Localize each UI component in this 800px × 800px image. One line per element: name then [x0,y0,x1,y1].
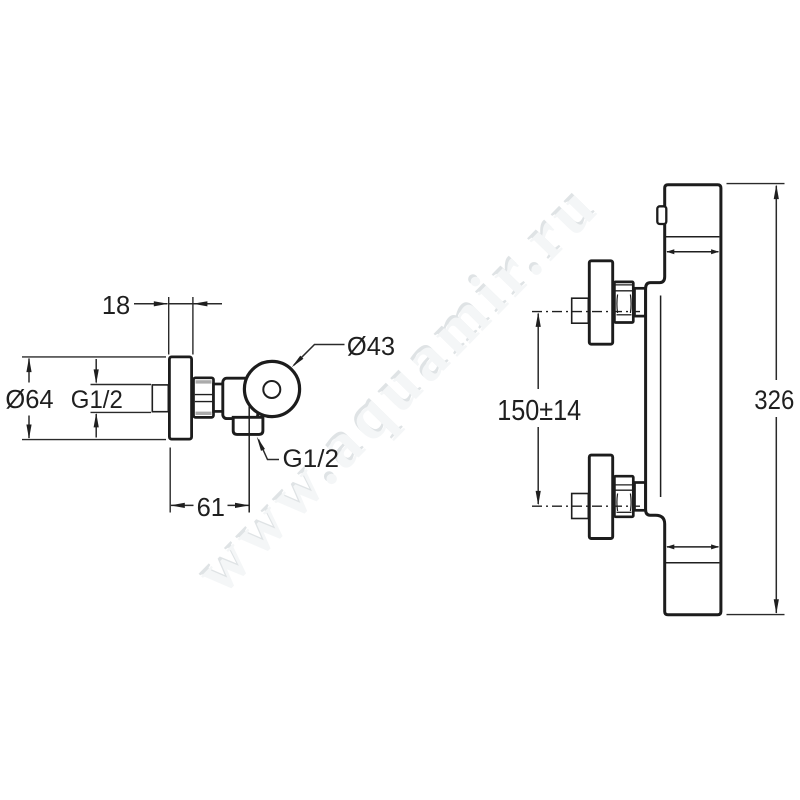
valve body (left view) [223,378,258,418]
node: lower centerline (dash-dot) [532,505,640,507]
wire: dim-18 extension line left [168,297,170,355]
bottom cap seam thin line [666,562,719,564]
node: upper centerline (dash-dot) [532,311,640,313]
watermark www.aquamir.ru [179,166,613,607]
lower nut inner line 1 [616,484,633,486]
upper escutcheon (right view) [589,261,612,344]
svg-text:150±14: 150±14 [497,395,581,427]
dim 150+-14 dimension line with arrows [536,312,541,505]
nut hex line lower [195,401,213,403]
top cap line with end arrows [666,249,719,254]
svg-text:G1/2: G1/2 [283,445,340,473]
upper nut inner line 2 [616,290,633,292]
wire: dim-326 extension line bottom [727,614,785,616]
lower eccentric adapter [635,483,646,511]
svg-text:G1/2: G1/2 [71,386,123,414]
nut shading band top [196,380,212,383]
lower nut barrel arcs [617,494,631,512]
wire: dia64 extension line bottom [22,439,166,441]
dim dia64 vertical dimension line with arrows [26,358,31,439]
mixer bar body outline (right view) [646,185,721,615]
nut hex line upper [195,394,213,396]
handle hub inner circle [263,381,280,398]
nut shading band bottom [196,412,212,415]
dim-18 dimension line with arrows [134,301,222,306]
svg-text:18: 18 [102,292,130,320]
neck between nut and body [214,384,224,411]
wire: G1/2 extension line top [91,384,152,386]
wire: G1/2 extension line bottom [91,411,152,413]
inner housing edge thin line [660,296,662,498]
pipe stub into wall (left view) [152,385,168,412]
handle disc outer circle dia43 [244,361,299,416]
upper nut inner line 3 [617,314,632,316]
upper nut barrel arcs [617,295,631,314]
lower nut inner line 2 [616,489,633,491]
wire: dim-326 extension line top [727,183,785,185]
leader for bottom G1/2 [257,437,279,460]
wall flange escutcheon (left view) [169,357,191,439]
wire: dim-61 right extension line through outlet [248,406,250,513]
temperature stop clip on bar left edge [657,206,666,224]
upper nut inner line 1 [616,284,633,286]
lower nut inner line 3 [617,511,632,513]
bottom outlet (left view) [233,417,263,434]
svg-text:326: 326 [754,385,794,415]
wire: dim-18 extension line right [192,297,194,355]
connection nut (left view) [194,378,214,418]
upper eccentric adapter [635,288,646,316]
dim-61 dimension line with arrows [170,503,249,508]
dim 326 dimension line with arrows [774,185,779,614]
leader for dia43 [292,345,345,368]
dim G1/2 arrows [94,359,99,438]
bottom cap line with end arrows [666,544,719,549]
svg-text:Ø43: Ø43 [347,333,395,361]
wire: dim-61 left extension line [169,448,171,513]
lower pipe stub (right view) [572,494,589,519]
upper nut (right view) [614,282,633,323]
lower escutcheon (right view) [589,455,612,538]
upper pipe stub (right view) [572,298,589,323]
svg-text:61: 61 [197,494,225,522]
lower nut (right view) [614,476,633,517]
top cap seam thin line [666,236,719,238]
svg-text:Ø64: Ø64 [5,386,53,414]
wire: dia64 extension line top [22,356,166,358]
